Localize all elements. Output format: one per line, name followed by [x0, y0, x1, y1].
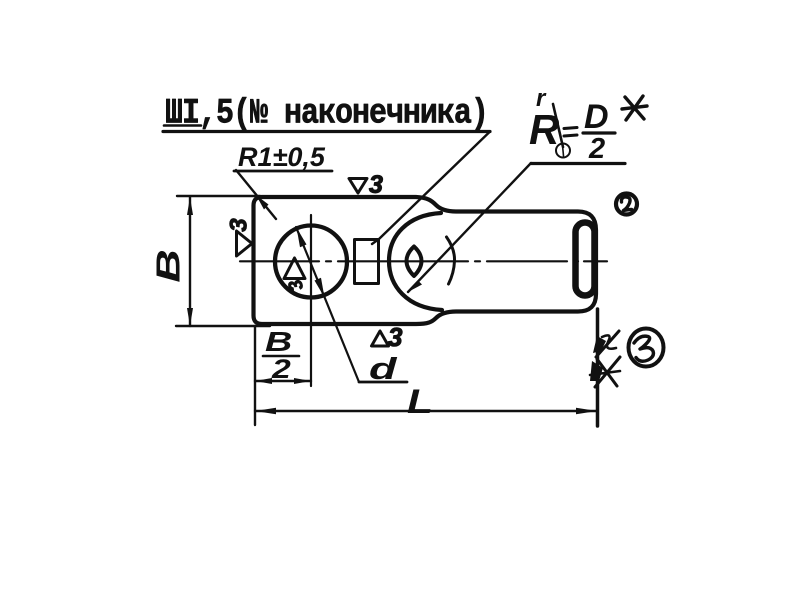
- svg-text:B: B: [265, 327, 292, 358]
- dimension L line: [255, 410, 597, 412]
- svg-text:ШІ,5(№ наконечника): ШІ,5(№ наконечника): [165, 93, 488, 133]
- dimension B line: [189, 197, 191, 326]
- dimension B extension bottom: [176, 325, 270, 327]
- equals sign: [564, 128, 577, 129]
- stamp rectangle: [355, 240, 379, 284]
- horizontal centerline: [240, 260, 607, 262]
- fraction bar of B/2: [263, 355, 299, 358]
- leader d shelf: [359, 381, 407, 384]
- svg-text:R1±0,5: R1±0,5: [238, 142, 326, 172]
- circled note 3: [629, 329, 664, 367]
- surface mark in hole triangle: [284, 258, 305, 279]
- title underline shelf: [163, 130, 490, 133]
- arrowhead at corner radius: [256, 195, 269, 210]
- hole circle: [275, 226, 347, 298]
- d arrow upper: [297, 228, 307, 248]
- L arrow right: [576, 408, 597, 414]
- d arrow lower: [315, 278, 325, 298]
- label 2 of B/2: [271, 354, 291, 384]
- label L: [407, 383, 433, 421]
- svg-text:3: 3: [369, 171, 383, 199]
- barrel opening capsule: [576, 223, 595, 296]
- svg-text:2: 2: [588, 133, 605, 165]
- leader from R1 note to corner radius: [236, 170, 276, 219]
- barrel dome arc: [389, 213, 442, 310]
- svg-text:B: B: [150, 249, 187, 282]
- leader from formula to barrel radius: [408, 163, 531, 292]
- surface mark left triangle: [237, 231, 253, 256]
- title text Ш1,5(№ наконечника): [165, 93, 488, 133]
- surface mark top triangle: [349, 179, 367, 194]
- B/2 arrow left: [255, 378, 272, 384]
- dimension L extension right: [596, 309, 600, 426]
- arrowhead of formula leader: [408, 281, 422, 292]
- svg-text:3: 3: [388, 322, 403, 352]
- surface mark bottom triangle: [372, 331, 389, 346]
- strike stroke through R: [553, 104, 563, 147]
- label B rotated: [150, 249, 187, 282]
- svg-text:3: 3: [225, 218, 252, 232]
- svg-text:D: D: [584, 98, 609, 136]
- svg-text:L: L: [407, 383, 433, 421]
- leader d line: [296, 227, 359, 382]
- dimension B arrow up: [187, 197, 193, 215]
- label B of B/2: [265, 327, 292, 358]
- dimension B arrow down: [187, 308, 193, 326]
- asterisk: [622, 96, 647, 120]
- leader from title to stamp rectangle: [372, 132, 490, 244]
- crossed-out scribble marks: [590, 331, 620, 387]
- strand lens: [407, 247, 422, 277]
- lug body outline: [254, 197, 597, 324]
- vertical centerline: [310, 215, 312, 386]
- circled note 2: [616, 194, 637, 215]
- formula shelf: [531, 162, 625, 165]
- transition arc: [447, 237, 455, 284]
- dimension B/2 line: [255, 380, 311, 382]
- dimension B/2 extension left: [254, 326, 256, 425]
- svg-text:2: 2: [271, 354, 291, 384]
- B/2 arrow right: [294, 378, 311, 384]
- underline under ШІ: [164, 124, 201, 127]
- label d: [369, 352, 398, 387]
- dimension B extension top: [177, 195, 260, 197]
- fraction bar: [583, 131, 615, 134]
- L arrow left: [255, 408, 276, 414]
- circled revision mark under R: [556, 144, 570, 158]
- svg-text:d: d: [369, 352, 398, 387]
- underline of R1 note: [234, 170, 332, 173]
